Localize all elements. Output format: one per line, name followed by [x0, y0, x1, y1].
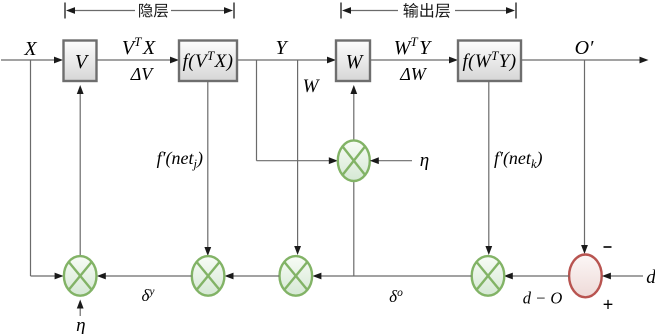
- wire Delta V up to V: [79, 94, 81, 256]
- wire Y branch down: [256, 60, 258, 161]
- svg-text:η: η: [420, 150, 429, 171]
- svg-text:η: η: [76, 315, 85, 334]
- summation node d-O (error): [569, 255, 602, 298]
- wire f-prime net_j drop: [207, 81, 209, 247]
- svg-text:ΔW: ΔW: [399, 64, 428, 84]
- arrowhead into f(WTY): [449, 57, 458, 64]
- arrowhead output: [640, 57, 649, 64]
- svg-text:Y: Y: [275, 37, 288, 59]
- arrowhead Delta V into V: [77, 85, 84, 94]
- weight box V: [64, 41, 97, 82]
- arrowhead into multiplier 2 right: [225, 273, 234, 280]
- wire W branch down: [297, 60, 299, 246]
- arrowhead into multiplier 3 right: [312, 273, 321, 280]
- arrowhead eta into multiplier 1: [77, 300, 84, 309]
- svg-text:d − O: d − O: [523, 289, 563, 308]
- wire Y into middle multiplier: [257, 160, 330, 162]
- arrowhead into multiplier 2: [204, 247, 211, 256]
- wire error to multiplier 4: [513, 275, 570, 277]
- arrowhead into multiplier 1: [55, 273, 64, 280]
- svg-text:W: W: [303, 76, 321, 97]
- wire f(VTX) to W, node Y: [237, 59, 328, 61]
- wire O drop to summation: [584, 60, 586, 245]
- wire delta^o up into middle multiplier: [353, 181, 355, 276]
- arrowhead into W: [327, 57, 336, 64]
- arrowhead Y into middle multiplier: [329, 157, 338, 164]
- output-layer right arrowhead: [506, 7, 515, 14]
- output-layer span left end bar: [340, 3, 342, 19]
- arrowhead Delta W into W: [350, 85, 357, 94]
- wire eta into middle multiplier: [379, 160, 413, 162]
- wire d input: [611, 275, 644, 277]
- output-layer span right end bar: [515, 3, 517, 19]
- wire X input: [1, 59, 55, 61]
- svg-text:W: W: [346, 51, 365, 73]
- svg-text:f(WTY): f(WTY): [463, 48, 517, 72]
- hidden-layer span right line: [171, 10, 225, 12]
- svg-text:X: X: [23, 38, 37, 60]
- arrowhead O into summation: [581, 245, 588, 254]
- hidden-layer span right end bar: [233, 3, 235, 19]
- wire W to f(WTY): [370, 59, 450, 61]
- arrowhead into multiplier 4: [485, 246, 492, 255]
- wire delta^o to multiplier 3: [321, 275, 471, 277]
- hidden-layer left arrowhead: [66, 7, 75, 14]
- wire X drop down: [30, 60, 32, 276]
- arrowhead d into summation: [602, 273, 611, 280]
- output-layer span right line: [455, 10, 507, 12]
- arrowhead into multiplier 3: [294, 246, 301, 255]
- wire output O-prime: [521, 59, 640, 61]
- wire V to f(VTX): [96, 59, 171, 61]
- svg-text:+: +: [603, 295, 614, 315]
- multiplier node delta^y: [192, 256, 225, 296]
- arrowhead into V: [54, 57, 63, 64]
- arrowhead into multiplier 4 right: [504, 273, 513, 280]
- multiplier node delta^o = (d-O)*f-prime(net_k): [472, 256, 505, 296]
- wire X into multiplier 1: [31, 275, 56, 277]
- wire eta up into multiplier 1: [79, 308, 81, 316]
- arrowhead eta into middle multiplier: [370, 157, 379, 164]
- wire f-prime net_k drop: [488, 81, 490, 246]
- wire to multiplier 2: [233, 275, 279, 277]
- output-layer left arrowhead: [342, 7, 351, 14]
- activation box f(WTY): [458, 41, 521, 82]
- multiplier node Delta V = eta*delta^y*X: [64, 256, 97, 296]
- weight box W: [336, 41, 370, 82]
- hidden-layer right arrowhead: [224, 7, 233, 14]
- arrowhead into multiplier 1 right: [97, 273, 106, 280]
- label hidden-layer (yin ceng): [139, 3, 168, 17]
- label output-layer (shu chu ceng): [403, 3, 449, 18]
- svg-text:d: d: [646, 267, 655, 288]
- hidden-layer span left end bar: [64, 3, 66, 19]
- wire Delta W up to W: [353, 94, 355, 140]
- svg-text:f′(netj): f′(netj): [157, 148, 203, 171]
- output-layer span left line: [350, 10, 398, 12]
- activation box f(VTX): [179, 41, 237, 82]
- wire delta^y to multiplier 1: [106, 275, 192, 277]
- arrowhead into f(VTX): [170, 57, 179, 64]
- svg-text:O′: O′: [575, 37, 594, 59]
- multiplier node eta*delta^o*Y (Delta W): [338, 140, 370, 181]
- svg-text:ΔV: ΔV: [130, 64, 155, 84]
- label minus: [604, 246, 612, 248]
- hidden-layer span left line: [74, 10, 135, 12]
- multiplier node W*delta^o: [280, 256, 313, 296]
